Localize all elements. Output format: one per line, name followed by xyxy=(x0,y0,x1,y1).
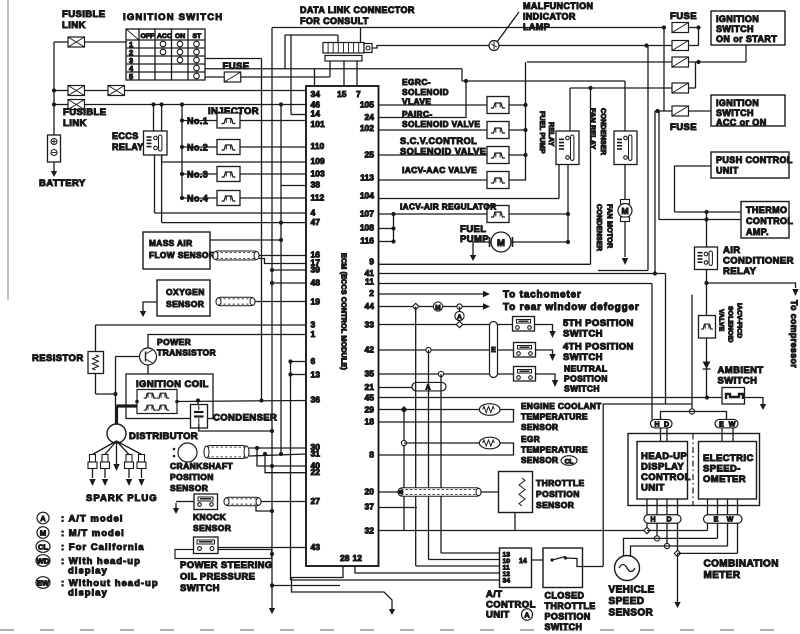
fusible link FL2 xyxy=(68,86,85,96)
svg-text:FUSE: FUSE xyxy=(223,61,250,72)
svg-text:LINK: LINK xyxy=(62,20,86,31)
wire xyxy=(210,239,281,241)
wire xyxy=(379,507,418,509)
svg-text:AIR: AIR xyxy=(723,245,741,256)
wire xyxy=(706,270,708,316)
svg-text:: For California: : For California xyxy=(61,542,145,553)
ignition switch ON/START box xyxy=(711,11,785,45)
wire xyxy=(655,110,672,112)
ground xyxy=(271,603,273,609)
svg-text:LAMP: LAMP xyxy=(523,22,550,32)
svg-text:PUMP: PUMP xyxy=(460,234,489,245)
svg-text:D: D xyxy=(664,421,669,428)
ground xyxy=(762,401,764,405)
wire xyxy=(182,120,218,122)
wire xyxy=(689,87,696,89)
wire xyxy=(285,34,338,36)
svg-text:SPARK PLUG: SPARK PLUG xyxy=(86,493,158,504)
wire xyxy=(660,428,662,442)
svg-text:4: 4 xyxy=(311,208,316,218)
connector node xyxy=(644,527,650,533)
wire xyxy=(147,365,149,374)
junction xyxy=(696,60,700,64)
svg-text:PAIRC-: PAIRC- xyxy=(402,109,433,119)
wire xyxy=(116,356,140,358)
wire xyxy=(698,28,700,46)
svg-text:9: 9 xyxy=(369,257,374,267)
connector E xyxy=(490,322,498,378)
ECCS relay K1 xyxy=(144,131,168,155)
svg-text:POWER STEERING: POWER STEERING xyxy=(180,560,273,571)
fuel pump relay K2 xyxy=(556,131,579,165)
svg-text:POSITION: POSITION xyxy=(545,612,591,622)
wire xyxy=(689,110,712,112)
svg-text:CONDENSER: CONDENSER xyxy=(599,108,608,156)
svg-text:FLOW SENSOR: FLOW SENSOR xyxy=(149,250,215,260)
junction xyxy=(704,281,708,285)
ground xyxy=(175,503,177,509)
legend symbol (EW) xyxy=(36,577,50,589)
wire xyxy=(659,219,741,221)
wire xyxy=(603,404,692,567)
wire xyxy=(356,61,358,86)
wire xyxy=(379,81,467,118)
svg-text:47: 47 xyxy=(311,217,321,227)
connector node xyxy=(438,371,443,376)
wire xyxy=(598,270,648,272)
svg-text:21: 21 xyxy=(365,382,375,392)
junction xyxy=(588,86,592,90)
wire xyxy=(379,410,514,423)
spark plug P3 xyxy=(125,455,134,487)
svg-text:5TH POSITION: 5TH POSITION xyxy=(563,318,634,329)
EGR temperature sensor B6 xyxy=(479,437,500,449)
junction xyxy=(566,240,570,244)
svg-text:SWITCH: SWITCH xyxy=(716,108,754,118)
bar xyxy=(186,139,207,147)
svg-text:107: 107 xyxy=(360,209,374,219)
IACV-FICD solenoid valve L6 xyxy=(699,316,716,339)
svg-text:101: 101 xyxy=(311,119,325,129)
junction xyxy=(523,153,527,157)
svg-text:ENGINE COOLANT: ENGINE COOLANT xyxy=(521,401,602,411)
svg-text:DISTRIBUTOR: DISTRIBUTOR xyxy=(129,431,198,442)
svg-text:FUSIBLE: FUSIBLE xyxy=(63,107,106,118)
svg-text:INDICATOR: INDICATOR xyxy=(523,12,576,22)
svg-text:44: 44 xyxy=(365,301,375,311)
bar xyxy=(186,190,207,198)
svg-text:SWITCH: SWITCH xyxy=(564,384,600,394)
svg-text:No.4: No.4 xyxy=(187,194,208,204)
wire xyxy=(624,165,626,200)
svg-text:TRANSISTOR: TRANSISTOR xyxy=(157,348,216,358)
svg-text:FUSE: FUSE xyxy=(670,122,697,133)
resistor R1 xyxy=(88,352,104,374)
connector node xyxy=(456,321,462,327)
junction xyxy=(263,452,267,456)
wire xyxy=(567,165,569,242)
connector node xyxy=(198,503,202,507)
injector No.4 xyxy=(217,191,240,206)
junction xyxy=(279,452,283,456)
svg-text:To rear window defogger: To rear window defogger xyxy=(503,302,640,313)
svg-text:113: 113 xyxy=(360,173,374,183)
connector node xyxy=(210,503,214,507)
wire xyxy=(647,46,649,271)
svg-text:RELAY: RELAY xyxy=(547,122,556,147)
arrow xyxy=(549,354,555,361)
svg-text:To tachometer: To tachometer xyxy=(503,290,582,301)
ground xyxy=(472,250,474,256)
connector node xyxy=(401,440,406,445)
closed throttle position switch S7 xyxy=(543,548,583,588)
svg-text:TEMPERATURE: TEMPERATURE xyxy=(521,412,588,422)
svg-text:VEHICLE: VEHICLE xyxy=(609,585,655,596)
legend symbol (M) xyxy=(37,527,49,539)
SCV control solenoid valve L3 xyxy=(487,147,509,164)
ground xyxy=(391,604,393,610)
svg-text:22: 22 xyxy=(311,467,321,477)
wire xyxy=(667,545,728,547)
condenser fan relay K3 xyxy=(614,131,637,165)
svg-text:43: 43 xyxy=(311,542,321,552)
wire xyxy=(162,222,306,224)
connector node xyxy=(654,536,659,541)
junction xyxy=(180,118,184,122)
wire xyxy=(372,46,672,49)
fuse F6 xyxy=(672,106,689,116)
wire xyxy=(513,241,569,243)
svg-text:3: 3 xyxy=(311,320,316,330)
wire xyxy=(85,41,127,43)
junction xyxy=(662,25,666,29)
svg-text:IACV-AAC VALVE: IACV-AAC VALVE xyxy=(402,165,477,175)
arrow xyxy=(483,291,490,297)
wire xyxy=(379,387,413,389)
wire xyxy=(689,27,699,29)
junction xyxy=(270,464,274,468)
wire xyxy=(290,362,292,581)
svg-text:NEUTRAL: NEUTRAL xyxy=(564,364,607,374)
svg-text:28: 28 xyxy=(340,553,350,563)
svg-text:SWITCH: SWITCH xyxy=(545,622,583,632)
junction xyxy=(566,212,570,216)
junction xyxy=(180,102,184,106)
wire xyxy=(115,406,118,425)
svg-text:15: 15 xyxy=(337,89,347,99)
svg-text:108: 108 xyxy=(360,223,374,233)
wire xyxy=(717,523,719,538)
svg-text:M: M xyxy=(40,528,46,537)
wire xyxy=(658,111,660,220)
svg-text:IGNITION: IGNITION xyxy=(716,14,759,24)
svg-text:OXYGEN: OXYGEN xyxy=(166,287,205,297)
wire xyxy=(54,41,68,43)
svg-text:No.1: No.1 xyxy=(187,116,208,126)
ground xyxy=(53,166,55,172)
svg-text:SWITCH: SWITCH xyxy=(563,329,603,340)
wire xyxy=(624,538,658,555)
wire xyxy=(240,173,307,175)
wire xyxy=(509,62,526,180)
wire xyxy=(657,537,718,539)
svg-text:MASS AIR: MASS AIR xyxy=(149,238,192,248)
wire xyxy=(666,499,668,515)
wire xyxy=(115,357,117,407)
svg-text:H: H xyxy=(654,421,659,428)
wire xyxy=(379,349,514,351)
junction xyxy=(391,226,395,230)
5th position switch S3 xyxy=(513,317,535,332)
fuel pump motor M1 xyxy=(490,232,513,252)
wire xyxy=(360,28,362,43)
junction xyxy=(279,102,283,106)
wire xyxy=(292,566,393,604)
svg-text:14: 14 xyxy=(519,558,527,565)
wire xyxy=(379,324,513,326)
connector node xyxy=(457,304,462,309)
svg-text:SOLENOID VALVE: SOLENOID VALVE xyxy=(400,147,486,157)
junction xyxy=(653,271,657,275)
push control unit U5 xyxy=(711,152,793,178)
arrow xyxy=(113,464,119,471)
svg-text:14: 14 xyxy=(311,109,321,119)
svg-text:33: 33 xyxy=(365,320,375,330)
ambient switch S6 xyxy=(722,388,745,405)
svg-text:11: 11 xyxy=(365,277,374,287)
svg-text:IACV-FICD: IACV-FICD xyxy=(736,303,743,338)
wire xyxy=(54,104,68,106)
connector node xyxy=(664,543,669,548)
arrow xyxy=(483,303,490,309)
wire xyxy=(441,552,500,554)
svg-text:E: E xyxy=(719,421,724,428)
legend symbol (WD) xyxy=(36,555,50,567)
svg-text:M: M xyxy=(497,238,505,249)
svg-text:19: 19 xyxy=(311,297,321,307)
svg-text:VLAVE: VLAVE xyxy=(402,97,431,107)
wire xyxy=(654,111,656,274)
svg-text:45: 45 xyxy=(365,393,375,403)
svg-text:103: 103 xyxy=(311,169,325,179)
svg-text:48: 48 xyxy=(311,278,321,288)
svg-text:EGR: EGR xyxy=(521,434,540,444)
wire xyxy=(675,211,742,213)
wire xyxy=(249,454,306,456)
wire xyxy=(379,241,394,243)
EGRC solenoid valve L1 xyxy=(487,97,509,114)
svg-text:FUSE: FUSE xyxy=(670,11,697,22)
wire xyxy=(355,566,500,573)
wire xyxy=(240,197,307,199)
wire xyxy=(200,498,211,500)
svg-text:MALFUNCTION: MALFUNCTION xyxy=(523,1,593,11)
wire xyxy=(218,547,306,549)
svg-text:6: 6 xyxy=(311,356,316,366)
svg-text:1: 1 xyxy=(311,329,316,339)
wire xyxy=(291,374,307,376)
wire xyxy=(291,579,500,581)
injector No.2 xyxy=(217,140,240,155)
wire xyxy=(125,90,307,92)
spark plug P1 xyxy=(88,455,97,487)
wire xyxy=(379,373,514,375)
wire xyxy=(379,154,488,156)
wire xyxy=(440,374,442,553)
svg-text:ON or START: ON or START xyxy=(716,34,777,44)
wire xyxy=(509,129,526,131)
svg-text:display: display xyxy=(68,566,108,577)
wire xyxy=(473,242,490,250)
wire xyxy=(569,88,571,131)
svg-text:SENSOR: SENSOR xyxy=(193,523,231,533)
svg-text:: A/T model: : A/T model xyxy=(61,514,123,525)
svg-text:IGNITION COIL: IGNITION COIL xyxy=(136,379,209,390)
marker (CL) California xyxy=(561,456,577,466)
svg-text:BATTERY: BATTERY xyxy=(39,178,86,189)
svg-text:EGRC-: EGRC- xyxy=(402,77,431,87)
svg-text:DISPLAY: DISPLAY xyxy=(641,462,684,473)
svg-text:VALVE: VALVE xyxy=(718,309,725,332)
wire xyxy=(416,565,500,567)
svg-text:AMBIENT: AMBIENT xyxy=(718,365,764,376)
junction xyxy=(151,102,155,106)
wire xyxy=(117,404,138,407)
svg-text:FOR CONSULT: FOR CONSULT xyxy=(300,16,369,26)
svg-text:RELAY: RELAY xyxy=(112,142,144,152)
svg-text:OMETER: OMETER xyxy=(703,474,746,485)
svg-text:IGNITION SWITCH: IGNITION SWITCH xyxy=(123,12,223,23)
svg-text:THROTTLE: THROTTLE xyxy=(545,601,596,611)
air conditioner relay K4 xyxy=(695,247,718,270)
svg-text:D: D xyxy=(666,517,671,524)
wire xyxy=(509,213,568,215)
junction xyxy=(270,268,274,272)
wire xyxy=(272,585,340,587)
wire xyxy=(379,530,645,532)
svg-text:No.3: No.3 xyxy=(187,170,208,180)
connector node xyxy=(674,550,680,556)
wire xyxy=(404,442,479,444)
wire xyxy=(240,146,307,148)
IACV-air regulator L5 xyxy=(487,206,509,223)
wire xyxy=(265,454,306,473)
connector H-D upper xyxy=(651,419,673,428)
junction xyxy=(160,102,164,106)
svg-text:SWITCH: SWITCH xyxy=(180,583,220,594)
junction xyxy=(288,372,292,376)
wire xyxy=(721,428,723,442)
marker (A) A/T model xyxy=(455,311,464,320)
svg-text:109: 109 xyxy=(311,156,325,166)
wire xyxy=(509,104,526,106)
wire xyxy=(692,412,727,420)
wire xyxy=(148,335,306,349)
wire xyxy=(271,28,273,604)
wire xyxy=(256,506,272,512)
svg-text:A/T: A/T xyxy=(486,589,503,600)
connector H-D lower xyxy=(644,515,681,524)
battery BAT1 xyxy=(48,135,61,162)
svg-text:METER: METER xyxy=(704,570,741,581)
wire xyxy=(154,155,156,213)
4th position switch S4 xyxy=(514,343,536,358)
svg-text:38: 38 xyxy=(311,180,321,190)
wire xyxy=(93,441,117,455)
svg-text:ST: ST xyxy=(193,33,203,40)
wire xyxy=(527,61,672,63)
junction xyxy=(180,145,184,149)
wire xyxy=(661,412,693,420)
wire xyxy=(791,283,796,288)
wire xyxy=(117,441,130,455)
thermo control amp U6 xyxy=(741,202,793,239)
svg-text:TEMPERATURE: TEMPERATURE xyxy=(521,445,588,455)
mass air flow sensor B1 xyxy=(143,232,215,269)
svg-text:FUEL PUMP: FUEL PUMP xyxy=(538,111,547,154)
svg-text:SPEED-: SPEED- xyxy=(703,464,741,475)
wire xyxy=(651,284,653,420)
svg-text:CRANKSHAFT: CRANKSHAFT xyxy=(170,461,233,471)
condenser C1 xyxy=(191,405,208,429)
wire xyxy=(153,105,155,132)
box xyxy=(194,494,218,510)
svg-text:W: W xyxy=(727,517,734,524)
wire xyxy=(143,302,157,306)
ignition switch ACC/ON box xyxy=(711,95,785,128)
wire xyxy=(514,513,516,531)
svg-text:FAN MOTOR: FAN MOTOR xyxy=(606,204,615,249)
wire xyxy=(162,161,306,163)
svg-text:12: 12 xyxy=(353,553,363,563)
shielded cable to TPS xyxy=(398,488,481,497)
wire xyxy=(161,105,163,132)
wire xyxy=(379,198,560,200)
svg-text:ACC or ON: ACC or ON xyxy=(716,118,767,128)
power steering oil pressure switch S2 xyxy=(175,537,272,559)
svg-text:35: 35 xyxy=(365,369,375,379)
shielded cable xyxy=(224,497,261,506)
wire xyxy=(462,80,625,82)
electric speedometer U4 xyxy=(699,442,757,500)
shielded cable to crank sensor xyxy=(204,446,249,459)
svg-text:CLOSED: CLOSED xyxy=(545,591,585,601)
junction xyxy=(180,172,184,176)
wire xyxy=(182,197,218,199)
bar xyxy=(186,166,207,174)
svg-text:COMBINATION: COMBINATION xyxy=(704,559,779,570)
legend symbol (A) xyxy=(37,512,49,524)
wire xyxy=(291,114,306,116)
wire xyxy=(379,409,480,411)
wire xyxy=(259,255,306,257)
svg-text:5: 5 xyxy=(129,72,133,81)
wire xyxy=(665,274,667,405)
junction xyxy=(704,210,708,214)
svg-text:EW: EW xyxy=(37,578,50,587)
svg-text:OFF: OFF xyxy=(141,33,155,40)
junction xyxy=(270,429,274,433)
wire xyxy=(257,448,306,466)
wire xyxy=(566,558,604,567)
arrow xyxy=(506,489,513,495)
wire xyxy=(95,374,97,395)
junction xyxy=(259,398,263,402)
svg-text:M: M xyxy=(621,206,628,216)
svg-text:: M/T model: : M/T model xyxy=(61,528,125,539)
svg-text:SENSOR: SENSOR xyxy=(521,422,558,432)
wire xyxy=(199,424,272,431)
